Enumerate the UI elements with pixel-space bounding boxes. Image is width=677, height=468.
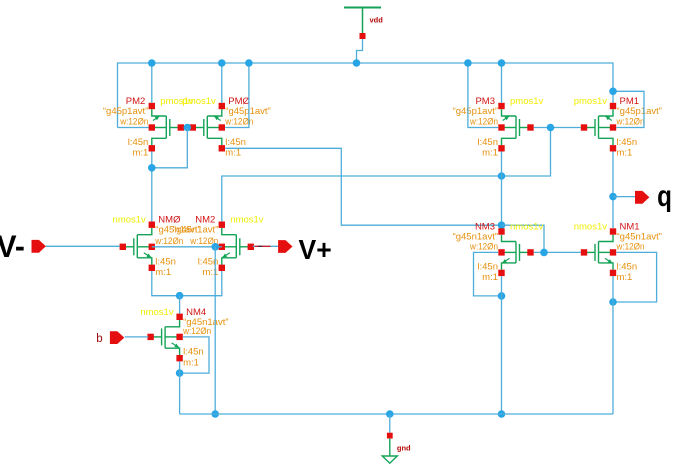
svg-text:nmos1v: nmos1v bbox=[510, 222, 544, 233]
wire NM4 bulk loop bbox=[180, 337, 209, 373]
wire PM0 source to rail bbox=[221, 63, 223, 103]
svg-text:nmos1v: nmos1v bbox=[574, 222, 608, 233]
wire: mirror net horizontal, NM2 drain to PM3/PM1 gate riser bbox=[222, 128, 551, 222]
svg-text:“g45p1avt”: “g45p1avt” bbox=[225, 106, 270, 117]
svg-text:w:12Øn: w:12Øn bbox=[616, 117, 645, 128]
svg-text:m:1: m:1 bbox=[183, 358, 199, 369]
junction PM3 source-rail bbox=[498, 59, 506, 67]
wire PM3 gate to PM1 gate bbox=[534, 127, 581, 129]
NM4 pins (D/G/S/B) bbox=[147, 314, 182, 362]
wire PM2-PM0 gate link bbox=[184, 127, 190, 129]
svg-text:m:1: m:1 bbox=[132, 148, 148, 159]
wire NM3 bulk loop bbox=[474, 252, 502, 296]
junction vdd-rail bbox=[353, 59, 361, 67]
wire gnd rail to gnd pin bbox=[389, 414, 391, 433]
svg-text:l:45n: l:45n bbox=[477, 137, 498, 148]
transistor NM1 bbox=[587, 235, 614, 270]
wire PM2 drain down to NM0 drain bbox=[151, 152, 153, 222]
wire PM0 bulk to rail bbox=[225, 63, 249, 128]
svg-text:w:12Øn: w:12Øn bbox=[469, 117, 498, 128]
svg-text:“g45n1avt”: “g45n1avt” bbox=[173, 225, 218, 236]
NM1 labels bbox=[574, 222, 662, 284]
junction NM1 source-bulk bbox=[609, 298, 617, 306]
junction tail node bbox=[176, 292, 184, 300]
junction NM3-gnd rail bbox=[498, 410, 506, 418]
port q bbox=[635, 191, 649, 204]
junction PM0 source-rail bbox=[218, 59, 226, 67]
svg-text:m:1: m:1 bbox=[617, 272, 633, 283]
svg-text:l:45n: l:45n bbox=[477, 261, 498, 272]
transistor PM0 bbox=[195, 109, 222, 145]
svg-text:m:1: m:1 bbox=[617, 148, 633, 159]
wire: vdd top rail with left/right drops bbox=[118, 63, 614, 128]
junction PM2 source-rail bbox=[148, 59, 156, 67]
wire PM3 drain stub bbox=[501, 152, 503, 177]
svg-text:m:1: m:1 bbox=[202, 267, 218, 278]
junction PM3 drain on mirror net bbox=[498, 172, 506, 180]
NM0 labels bbox=[113, 215, 201, 278]
junction q node bbox=[609, 193, 617, 201]
svg-text:w:12Øn: w:12Øn bbox=[616, 241, 645, 252]
svg-text:l:45n: l:45n bbox=[183, 347, 204, 358]
port V- bbox=[32, 240, 46, 253]
svg-text:w:12Øn: w:12Øn bbox=[182, 326, 211, 337]
PM1 labels bbox=[574, 96, 662, 159]
svg-text:nmos1v: nmos1v bbox=[230, 215, 264, 226]
PM0 pins (D/G/S/B) bbox=[190, 103, 225, 152]
wire port b to NM4 gate bbox=[125, 336, 149, 338]
transistor NM3 bbox=[502, 235, 529, 270]
wire NM3 diode connection bbox=[502, 225, 545, 252]
transistor PM3 bbox=[502, 109, 529, 145]
transistor PM2 bbox=[152, 109, 179, 145]
svg-text:“g45p1avt”: “g45p1avt” bbox=[453, 106, 498, 117]
junction PM3 bulk-rail bbox=[464, 59, 472, 67]
junction NM3 gate bbox=[540, 249, 548, 257]
wire NM4 source to ground rail bbox=[179, 361, 181, 414]
wire PM1 drain down to NM1 drain (q node) bbox=[612, 152, 614, 229]
junction bulk-gnd rail bbox=[211, 410, 219, 418]
svg-text:l:45n: l:45n bbox=[155, 256, 176, 267]
svg-text:pmos1v: pmos1v bbox=[510, 96, 544, 107]
junction NM3 source-bulk bbox=[498, 292, 506, 300]
wire q node to port q bbox=[613, 196, 635, 198]
wire NM1 source to ground rail bbox=[612, 276, 614, 414]
junction pair bulk tap bbox=[211, 243, 219, 251]
svg-text:pmos1v: pmos1v bbox=[183, 96, 217, 107]
transistor PM1 bbox=[587, 109, 614, 145]
wire NM3 gate to NM1 gate bbox=[534, 251, 581, 253]
NM2 pins (D/G/S/B) bbox=[219, 222, 254, 272]
wire red stub at V+ bbox=[255, 245, 271, 247]
wire: ground bottom rail bbox=[180, 413, 613, 415]
svg-text:“g45p1avt”: “g45p1avt” bbox=[103, 106, 148, 117]
transistor NM4 bbox=[153, 320, 180, 355]
svg-text:b: b bbox=[96, 333, 102, 345]
svg-text:nmos1v: nmos1v bbox=[113, 215, 147, 226]
PM3 labels bbox=[453, 96, 544, 159]
vdd supply symbol bbox=[344, 8, 381, 34]
junction NM3 diode tap bbox=[498, 221, 506, 229]
wire NM2 source to tail bbox=[180, 271, 222, 296]
svg-text:l:45n: l:45n bbox=[225, 137, 246, 148]
NM1 pins (D/G/S/B) bbox=[581, 228, 616, 276]
wire PM1 bulk loop to vdd drop bbox=[613, 91, 644, 127]
svg-text:V+: V+ bbox=[299, 234, 332, 265]
wire gate junction down to PM2 drain node bbox=[152, 128, 188, 168]
junction PM3/PM1 gate riser bbox=[547, 124, 555, 132]
wire NM3 drain riser bbox=[501, 176, 503, 228]
svg-text:vdd: vdd bbox=[370, 16, 384, 25]
svg-text:l:45n: l:45n bbox=[617, 261, 638, 272]
svg-text:m:1: m:1 bbox=[482, 272, 498, 283]
wire NM2 gate to port V+ (cyan under) bbox=[253, 245, 278, 247]
svg-text:w:12Øn: w:12Øn bbox=[119, 117, 148, 128]
junction PM0 bulk-rail bbox=[245, 59, 253, 67]
svg-text:l:45n: l:45n bbox=[617, 137, 638, 148]
svg-text:V-: V- bbox=[0, 228, 25, 264]
junction PM2 drain / diode tap bbox=[148, 164, 156, 172]
wire dark stub fragment at V+ bbox=[258, 245, 263, 247]
svg-text:m:1: m:1 bbox=[225, 148, 241, 159]
svg-text:m:1: m:1 bbox=[482, 148, 498, 159]
junction NM4 source-bulk bbox=[176, 369, 184, 377]
svg-text:gnd: gnd bbox=[397, 443, 411, 452]
svg-text:w:12Øn: w:12Øn bbox=[469, 241, 498, 252]
wire PM0 drain elbow down to NM3 drain node bbox=[225, 148, 501, 225]
NM3 pins (D/G/S/B) bbox=[498, 228, 533, 276]
wire vdd pin to rail bbox=[357, 39, 363, 63]
port V+ bbox=[278, 240, 292, 253]
NM0 pins (D/G/S/B) bbox=[120, 222, 155, 272]
NM2 labels bbox=[173, 215, 264, 278]
junction PM1 bulk-vdd drop bbox=[609, 88, 617, 96]
wire NM3 source to ground rail bbox=[501, 276, 503, 414]
wire NM0 bulk to NM2 bulk bbox=[152, 246, 222, 248]
junction gnd tap bbox=[386, 410, 394, 418]
wire PM3 bulk to rail bbox=[468, 63, 498, 128]
svg-text:q: q bbox=[657, 180, 672, 213]
svg-text:m:1: m:1 bbox=[155, 267, 171, 278]
NM4 labels bbox=[140, 307, 228, 369]
svg-text:“g45p1avt”: “g45p1avt” bbox=[617, 106, 662, 117]
junction PM2/PM0 gates bbox=[184, 124, 192, 132]
svg-text:l:45n: l:45n bbox=[128, 137, 149, 148]
svg-text:pmos1v: pmos1v bbox=[574, 96, 608, 107]
port b bbox=[110, 331, 124, 344]
PM3 pins (D/G/S/B) bbox=[498, 103, 533, 152]
wire port V- to NM0 gate bbox=[46, 245, 120, 247]
wire PM2 source to rail bbox=[151, 63, 153, 103]
vdd pin bbox=[360, 33, 366, 39]
ground symbol bbox=[382, 439, 397, 464]
PM2 labels bbox=[103, 96, 194, 159]
PM2 pins (D/G/S/B) bbox=[149, 103, 184, 152]
gnd pin bbox=[387, 433, 393, 439]
svg-text:w:12Øn: w:12Øn bbox=[154, 236, 183, 247]
PM1 pins (D/G/S/B) bbox=[581, 103, 616, 152]
transistor NM2 bbox=[222, 228, 249, 265]
transistor NM0 bbox=[125, 228, 152, 265]
wire NM0 source to tail bbox=[152, 271, 180, 296]
svg-text:nmos1v: nmos1v bbox=[140, 307, 174, 318]
wire pair bulk down to ground rail bbox=[214, 247, 216, 414]
NM3 labels bbox=[453, 222, 544, 284]
PM0 labels bbox=[183, 96, 271, 159]
wire PM3 source to rail bbox=[501, 63, 503, 103]
wire NM1 bulk loop bbox=[613, 252, 657, 302]
wire tail down to NM4 drain bbox=[179, 296, 181, 314]
wire: left bulk feed to PM2 bbox=[118, 127, 149, 129]
